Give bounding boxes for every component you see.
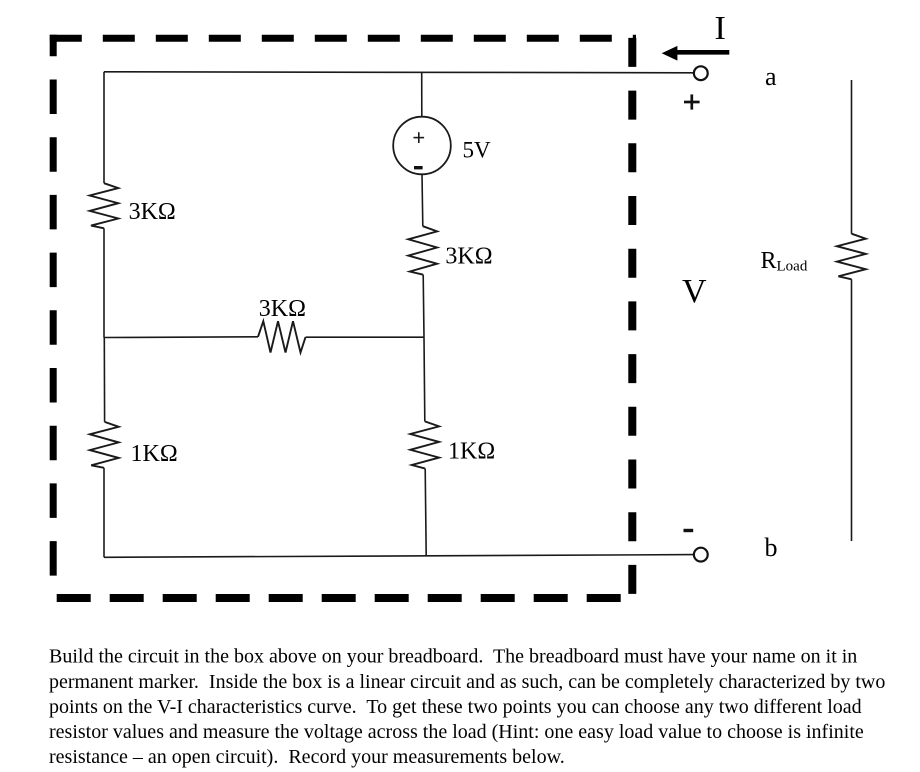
wire middle vertical between R3 and node bbox=[422, 275, 425, 338]
wire left vertical bottom bbox=[103, 468, 105, 558]
minus sign at terminal b bbox=[684, 529, 694, 532]
svg-text:3KΩ: 3KΩ bbox=[129, 199, 176, 225]
plus sign at terminal a bbox=[684, 94, 700, 109]
resistor RLoad bbox=[837, 234, 866, 280]
dashed box top edge bbox=[50, 35, 636, 42]
svg-text:b: b bbox=[765, 533, 778, 562]
terminal a bbox=[694, 66, 708, 80]
svg-text:permanent marker. Inside the: permanent marker. Inside the box is a li… bbox=[49, 671, 885, 693]
wire middle horizontal right segment bbox=[306, 336, 425, 338]
wire bottom horizontal (node b rail) bbox=[104, 555, 694, 558]
dashed box bottom edge bbox=[53, 594, 636, 602]
terminal b bbox=[694, 548, 708, 562]
current arrow I bbox=[662, 46, 730, 61]
svg-text:a: a bbox=[765, 62, 777, 91]
svg-text:1KΩ: 1KΩ bbox=[448, 439, 495, 465]
svg-text:5V: 5V bbox=[463, 137, 492, 162]
resistor R5 1KΩ (middle lower) bbox=[410, 421, 439, 468]
wire left vertical lower bbox=[103, 338, 105, 422]
resistor R1 3KΩ (left upper) bbox=[90, 183, 119, 228]
wire left vertical upper bbox=[103, 72, 105, 183]
svg-text:resistance – an open circuit).: resistance – an open circuit). Record yo… bbox=[49, 746, 565, 768]
wire middle horizontal left segment bbox=[104, 336, 258, 339]
svg-text:points on the V-I characterist: points on the V-I characteristics curve.… bbox=[49, 696, 862, 718]
svg-text:Build the circuit in the box a: Build the circuit in the box above on yo… bbox=[49, 646, 857, 668]
wire top horizontal (node a rail) bbox=[104, 72, 694, 73]
wire load branch lower bbox=[851, 279, 853, 541]
svg-text:1KΩ: 1KΩ bbox=[131, 441, 178, 467]
voltage source V1 5V bbox=[393, 117, 451, 175]
instruction text paragraph bbox=[49, 646, 885, 769]
svg-text:V: V bbox=[682, 273, 707, 310]
resistor R3 3KΩ (middle vertical) bbox=[408, 226, 437, 275]
dashed box left edge bbox=[50, 35, 57, 596]
wire load branch upper bbox=[851, 80, 853, 234]
svg-text:3KΩ: 3KΩ bbox=[445, 243, 492, 269]
svg-text:I: I bbox=[715, 10, 726, 47]
wire left vertical middle bbox=[103, 228, 105, 337]
wire middle vertical below node bbox=[423, 337, 426, 421]
resistor R2 3KΩ (horizontal) bbox=[258, 321, 306, 352]
wire middle vertical bottom bbox=[425, 469, 426, 556]
dashed box right edge bbox=[628, 35, 636, 602]
wire source branch below source bbox=[421, 174, 424, 226]
resistor R4 1KΩ (left lower) bbox=[90, 422, 119, 468]
wire source branch top bbox=[421, 72, 423, 117]
svg-text:3KΩ: 3KΩ bbox=[259, 296, 306, 322]
svg-text:resistor values and measure th: resistor values and measure the voltage … bbox=[49, 721, 864, 743]
